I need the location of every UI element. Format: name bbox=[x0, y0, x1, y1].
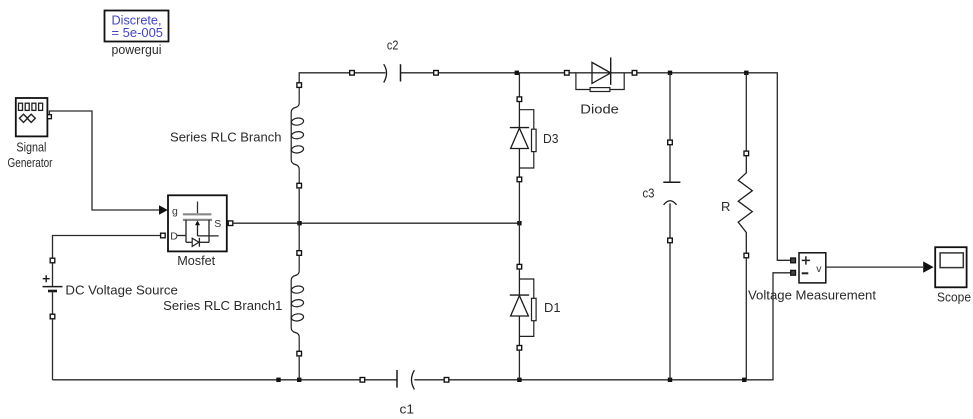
wire c3 to bottom rail bbox=[669, 243, 671, 380]
svg-text:Diode: Diode bbox=[580, 102, 619, 117]
junction mid rail / diode branch bbox=[517, 221, 521, 225]
svg-text:D: D bbox=[170, 231, 178, 243]
c3 value label bbox=[643, 185, 655, 200]
diode D1 bbox=[510, 264, 536, 350]
svg-text:Generator: Generator bbox=[8, 155, 54, 170]
wire mid rail to lower inductor bbox=[298, 223, 300, 251]
svg-text:Discrete,: Discrete, bbox=[112, 13, 162, 27]
scope label bbox=[937, 290, 971, 305]
junction bottom rail / RLC branch1 bbox=[297, 378, 301, 382]
DC voltage source V1 bbox=[43, 258, 63, 319]
svg-text:R: R bbox=[721, 199, 730, 214]
junction top rail / R branch bbox=[744, 71, 748, 75]
D1 label bbox=[544, 300, 561, 315]
svg-text:= 5e-005: = 5e-005 bbox=[112, 26, 164, 40]
voltage measurement block VM1 bbox=[791, 253, 826, 283]
series RLC branch label bbox=[170, 130, 282, 145]
wire R to bottom rail bbox=[745, 258, 747, 380]
capacitor c1 bbox=[360, 370, 449, 389]
capacitor c2 bbox=[350, 64, 439, 82]
signal generator label bbox=[8, 139, 54, 170]
wire mid rail to D1 bbox=[518, 223, 520, 264]
svg-text:g: g bbox=[172, 206, 178, 218]
svg-text:Signal: Signal bbox=[16, 139, 46, 154]
svg-text:Mosfet: Mosfet bbox=[177, 253, 215, 268]
top rail wire (corner over inductor to c2 left plate) bbox=[299, 73, 385, 85]
wire top rail to R bbox=[745, 73, 747, 151]
svg-text:S: S bbox=[214, 218, 221, 230]
DC voltage source label bbox=[65, 282, 177, 297]
wire upper inductor to mid rail bbox=[298, 188, 300, 223]
R value label bbox=[721, 199, 730, 214]
powergui block U0 bbox=[105, 11, 169, 42]
svg-text:Voltage Measurement: Voltage Measurement bbox=[748, 288, 876, 303]
junction top rail / c3 branch bbox=[668, 71, 672, 75]
Diode label bbox=[580, 102, 619, 117]
wire D1 to bottom rail bbox=[518, 350, 520, 380]
top rail wire (from c2 bar to voltage measurement plus) bbox=[401, 73, 791, 260]
scope block bbox=[935, 247, 966, 287]
svg-text:powergui: powergui bbox=[112, 42, 162, 57]
powergui label bbox=[112, 42, 162, 57]
wire DC source minus down to bottom rail bbox=[52, 319, 54, 380]
voltage measurement label bbox=[748, 288, 876, 303]
svg-text:c3: c3 bbox=[643, 185, 655, 200]
wire top rail to c3 bbox=[669, 73, 671, 141]
capacitor c3 bbox=[663, 140, 680, 243]
svg-text:Scope: Scope bbox=[937, 290, 971, 305]
series RLC branch1 L2 (lower inductor) bbox=[291, 251, 304, 356]
bottom rail wire (right part from c1 to voltage measurement minus) bbox=[414, 273, 791, 380]
svg-text:Series RLC Branch1: Series RLC Branch1 bbox=[163, 298, 282, 313]
mosfet block Q1 bbox=[161, 195, 233, 251]
series RLC branch L1 (upper inductor) bbox=[291, 83, 304, 188]
D3 label bbox=[543, 131, 559, 146]
svg-text:D3: D3 bbox=[543, 131, 559, 146]
mosfet label bbox=[177, 253, 215, 268]
diode D3 bbox=[510, 97, 536, 182]
wire voltage measurement to scope bbox=[826, 261, 934, 272]
svg-text:v: v bbox=[816, 263, 822, 275]
wire D3 to mid rail bbox=[518, 182, 520, 224]
bottom rail wire (left part up to c1) bbox=[53, 379, 398, 381]
junction mid rail / inductor branch bbox=[297, 221, 301, 225]
wire mid rail Mosfet S to diode leg bbox=[233, 222, 520, 224]
svg-text:Series RLC Branch: Series RLC Branch bbox=[170, 130, 282, 145]
wire lower inductor to bottom rail bbox=[298, 356, 300, 380]
wire top rail to D3 bbox=[518, 73, 520, 97]
resistor R bbox=[738, 151, 752, 258]
wire SG output to Mosfet gate bbox=[49, 111, 167, 215]
svg-text:c1: c1 bbox=[400, 401, 415, 416]
svg-text:D1: D1 bbox=[544, 300, 561, 315]
junction top rail / D3 branch bbox=[515, 71, 519, 75]
junction bottom rail / R branch bbox=[742, 378, 746, 382]
svg-text:DC Voltage Source: DC Voltage Source bbox=[65, 282, 177, 297]
junction bottom rail (stray) bbox=[276, 378, 280, 382]
wire DC source plus to Mosfet D bbox=[53, 236, 161, 259]
junction bottom rail / c3 branch bbox=[668, 378, 672, 382]
signal generator SG1 bbox=[16, 98, 52, 136]
junction bottom rail / D1 branch bbox=[517, 378, 521, 382]
c2 value label bbox=[387, 37, 399, 52]
diode Diode (top right) bbox=[565, 57, 637, 91]
series RLC branch1 label bbox=[163, 298, 282, 313]
c1 value label bbox=[400, 401, 415, 416]
svg-text:c2: c2 bbox=[387, 37, 399, 52]
